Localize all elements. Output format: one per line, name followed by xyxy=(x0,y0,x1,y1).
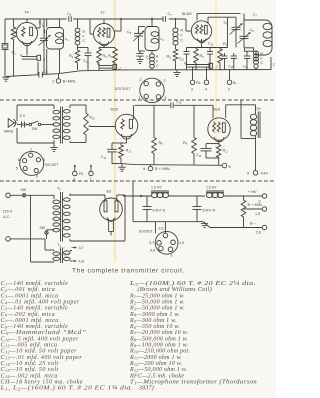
svg-text:8 M F D: 8 M F D xyxy=(153,209,166,213)
svg-text:C11—.005 mfd. mica: C11—.005 mfd. mica xyxy=(1,342,58,349)
svg-text:C1—140 mmfd. variable: C1—140 mmfd. variable xyxy=(1,280,69,287)
tube 6L6 modulator xyxy=(208,105,230,141)
wire 6L6G plate top xyxy=(197,13,241,20)
label T7 xyxy=(100,10,105,15)
label C far right xyxy=(273,63,276,67)
tank coil L1 xyxy=(47,28,64,50)
coupling box xyxy=(245,48,254,51)
svg-text:R11: R11 xyxy=(126,149,132,154)
label 6L6G xyxy=(182,11,192,16)
label C15 xyxy=(176,100,182,105)
svg-text:C5—140 mmfd. variable: C5—140 mmfd. variable xyxy=(1,305,69,312)
microphone xyxy=(8,119,17,128)
wire T4 plate xyxy=(35,19,40,28)
label R6 xyxy=(200,54,205,59)
label C9 xyxy=(224,21,229,26)
cathode bypass capacitor xyxy=(184,48,190,71)
svg-text:6: 6 xyxy=(229,164,232,169)
svg-text:6C5: 6C5 xyxy=(111,107,119,112)
wire 83 filament to HV rail xyxy=(123,195,151,197)
label T2 xyxy=(57,187,61,192)
svg-text:C9—Hammarlund “Mcd”: C9—Hammarlund “Mcd” xyxy=(1,329,87,336)
label 6L6 xyxy=(214,106,221,111)
transformer T3 primary xyxy=(53,250,60,262)
label R4 xyxy=(108,54,113,59)
svg-text:3 V: 3 V xyxy=(20,114,26,118)
svg-text:83: 83 xyxy=(107,189,112,194)
label 115V AC xyxy=(3,210,13,220)
T3 output 3,7 xyxy=(70,246,84,251)
svg-text:C: C xyxy=(83,39,86,43)
terminal +HV power xyxy=(262,194,267,199)
wire grid bus top xyxy=(5,18,67,20)
svg-text:3,7: 3,7 xyxy=(79,246,84,250)
terminal B- 2 xyxy=(227,70,232,85)
svg-text:SW: SW xyxy=(32,127,38,131)
label +HV power xyxy=(248,189,261,204)
ground left xyxy=(2,77,9,81)
power socket wire xyxy=(155,222,157,234)
svg-text:C: C xyxy=(261,61,264,65)
svg-text:8: 8 xyxy=(43,158,45,162)
filter capacitor 8MFD 1 xyxy=(143,196,152,222)
svg-text:C15: C15 xyxy=(229,64,235,69)
label power socket pins xyxy=(149,227,184,258)
svg-text:3: 3 xyxy=(191,88,193,92)
label MIKE xyxy=(4,130,14,134)
svg-text:R10—250,000 ohm pot.: R10—250,000 ohm pot. xyxy=(129,349,190,355)
terminal FIL 4 xyxy=(204,70,209,85)
svg-text:C15—10 mfd. 50 volt: C15—10 mfd. 50 volt xyxy=(1,366,59,373)
svg-text:2: 2 xyxy=(140,78,142,82)
svg-text:B–: B– xyxy=(233,81,239,85)
wire T1 sec top xyxy=(70,105,86,112)
resistor R7 xyxy=(218,48,223,71)
svg-text:F: F xyxy=(83,35,85,39)
power bottom rail xyxy=(133,222,262,228)
label Cb xyxy=(243,64,249,69)
wire 6L6 cathode xyxy=(218,140,220,143)
ground under T1 xyxy=(50,143,57,152)
jack J2 xyxy=(98,64,117,70)
capacitor C7 xyxy=(163,16,165,22)
speaker socket xyxy=(20,151,44,175)
svg-text:2,6: 2,6 xyxy=(256,231,261,235)
transformer T2 core xyxy=(61,192,63,242)
label 6.3V xyxy=(62,253,71,257)
svg-text:C2—.001 mfd. mica: C2—.001 mfd. mica xyxy=(1,286,56,293)
svg-text:F: F xyxy=(156,60,158,64)
label R12 xyxy=(223,149,229,154)
svg-text:T2: T2 xyxy=(57,187,61,192)
svg-text:+ HV: + HV xyxy=(248,189,257,194)
label R8 xyxy=(159,141,164,146)
transformer T1 primary xyxy=(53,105,60,143)
label socket pins xyxy=(139,78,167,100)
svg-text:C8—140 mmfd. variable: C8—140 mmfd. variable xyxy=(1,323,69,330)
svg-text:9: 9 xyxy=(36,175,38,179)
wire T2 sec top to plate xyxy=(70,195,144,202)
svg-text:R3: R3 xyxy=(103,54,108,59)
filter choke 1 (1.5 HY) xyxy=(151,191,169,198)
capacitor C3 xyxy=(69,16,71,22)
svg-text:SOCKET: SOCKET xyxy=(139,229,153,233)
svg-text:4: 4 xyxy=(205,88,207,92)
label C2 xyxy=(44,70,49,75)
svg-text:B + MIN.: B + MIN. xyxy=(155,166,171,171)
label L2b xyxy=(161,37,165,42)
label T1 xyxy=(57,99,61,104)
svg-text:R9: R9 xyxy=(183,141,188,146)
label 9 B+MIN xyxy=(143,166,171,171)
label 8MFD 2 xyxy=(203,209,216,213)
svg-text:1.5 HY: 1.5 HY xyxy=(206,186,217,190)
label FIL mid xyxy=(73,172,91,182)
filter capacitor 8MFD 2 xyxy=(193,196,202,222)
svg-text:2: 2 xyxy=(228,88,230,92)
switch SW line xyxy=(10,194,54,197)
wire between chokes xyxy=(169,195,205,197)
tube T7 buffer xyxy=(94,19,115,46)
svg-text:R2: R2 xyxy=(69,54,74,59)
label RFC3 xyxy=(261,52,264,65)
label 6 xyxy=(229,164,232,169)
resistor R2 xyxy=(75,49,80,70)
resistor R6 xyxy=(194,48,199,71)
svg-text:R6—350 ohm 10 w.: R6—350 ohm 10 w. xyxy=(129,324,180,330)
label 1 B+MIN xyxy=(52,79,76,84)
capacitor C13 xyxy=(201,144,220,159)
terminal FIL B xyxy=(89,165,94,176)
label CH xyxy=(255,107,261,111)
label L1 xyxy=(65,37,69,42)
label SW mic xyxy=(32,127,38,131)
svg-text:8 M F D: 8 M F D xyxy=(203,209,216,213)
svg-text:R9—100,000 ohm 1 w.: R9—100,000 ohm 1 w. xyxy=(129,343,188,349)
svg-text:5: 5 xyxy=(171,254,173,258)
svg-text:R4: R4 xyxy=(108,54,113,59)
terminal 115V line 1 xyxy=(6,193,11,198)
label RFC1 xyxy=(83,30,86,43)
capacitor C14 xyxy=(107,143,117,164)
svg-text:R10: R10 xyxy=(90,116,96,121)
wire T4 cathode to key xyxy=(26,44,28,56)
speech plate bus xyxy=(135,104,214,106)
svg-text:L1, L2—(160M.) 60 T. # 20 EC 1: L1, L2—(160M.) 60 T. # 20 EC 1¾ dia. xyxy=(0,385,134,392)
label C3 xyxy=(67,12,72,17)
wire plate bus top xyxy=(73,18,163,20)
svg-text:C: C xyxy=(273,63,276,67)
svg-text:7: 7 xyxy=(30,148,32,152)
svg-text:C4—.01 mfd. 400 volt paper: C4—.01 mfd. 400 volt paper xyxy=(1,298,80,305)
svg-text:C14: C14 xyxy=(101,155,107,160)
capacitor C15 xyxy=(171,103,173,109)
grid choke RFC4 xyxy=(173,18,178,48)
label C6 xyxy=(146,56,151,61)
svg-text:L2: L2 xyxy=(161,37,165,42)
svg-text:L3: L3 xyxy=(253,13,257,18)
antenna coil L3 xyxy=(244,20,272,55)
ground speech xyxy=(118,164,125,171)
plate choke RFC2 xyxy=(150,51,155,70)
tube T4 xyxy=(16,19,37,46)
svg-text:+HV: +HV xyxy=(260,171,268,176)
svg-text:The complete transmitter circu: The complete transmitter circuit. xyxy=(72,268,185,275)
svg-text:F: F xyxy=(181,34,183,38)
label C4 xyxy=(83,59,88,64)
antenna capacitor Cc xyxy=(222,53,228,70)
svg-text:R11—2000 ohm 1 w.: R11—2000 ohm 1 w. xyxy=(129,355,182,361)
wire 6L6 plate xyxy=(226,105,256,118)
modulation choke CH xyxy=(250,105,260,138)
svg-text:C6—.002 mfd. mica: C6—.002 mfd. mica xyxy=(1,311,56,318)
label SW2 xyxy=(40,226,46,230)
tank coil L2b xyxy=(139,27,160,52)
svg-text:SW: SW xyxy=(40,226,46,230)
svg-text:CH—18 henry 150 ma. choke: CH—18 henry 150 ma. choke xyxy=(1,379,83,385)
svg-text:1: 1 xyxy=(52,79,55,84)
svg-text:5: 5 xyxy=(247,171,250,176)
svg-text:(Brown and Williams Coil): (Brown and Williams Coil) xyxy=(130,286,212,293)
wire line 2 xyxy=(10,238,45,240)
svg-text:C: C xyxy=(156,64,159,68)
label 83 xyxy=(107,189,112,194)
key jack J1 xyxy=(21,55,41,75)
label C1 xyxy=(39,21,45,34)
wire choke to +HV xyxy=(255,139,257,171)
label J3 xyxy=(215,64,219,69)
svg-text:R12: R12 xyxy=(223,149,229,154)
terminal B- power xyxy=(262,225,267,230)
potentiometer R10 xyxy=(84,112,91,136)
T3 output 4,8 xyxy=(70,260,84,264)
label 3V xyxy=(20,114,26,118)
transformer T1 core xyxy=(61,107,63,144)
label C8 xyxy=(250,28,255,33)
svg-text:9: 9 xyxy=(143,166,146,171)
label Ca xyxy=(229,64,235,69)
terminal FIL A xyxy=(73,165,78,176)
label SOCKET top xyxy=(115,87,132,91)
svg-text:R1—25,000 ohm 1 w.: R1—25,000 ohm 1 w. xyxy=(129,293,185,299)
svg-text:B+MIN.: B+MIN. xyxy=(63,79,76,84)
label choke 2 xyxy=(206,186,217,190)
wire T2 sec bottom to plate xyxy=(70,195,125,241)
label R3 xyxy=(103,54,108,59)
section separator dashed line xyxy=(0,99,276,101)
svg-text:MIKE: MIKE xyxy=(4,130,14,134)
svg-text:RFC—2.5 mh. choke: RFC—2.5 mh. choke xyxy=(129,373,184,379)
label C10 xyxy=(208,42,214,47)
label C13 xyxy=(196,153,202,158)
speech bottom bus xyxy=(121,164,222,166)
bottom bus of RF section xyxy=(6,70,271,77)
terminal FIL 3 xyxy=(190,70,195,85)
terminal 6 xyxy=(222,163,227,168)
svg-text:R8—500,000 ohm 1 w.: R8—500,000 ohm 1 w. xyxy=(129,336,188,342)
tube 6C5 xyxy=(115,114,138,139)
svg-text:SW: SW xyxy=(21,188,27,192)
svg-text:T7: T7 xyxy=(100,10,105,15)
label J2 xyxy=(118,66,122,71)
svg-text:C: C xyxy=(181,39,184,43)
ground power xyxy=(201,222,208,228)
resistor R8 xyxy=(152,105,157,164)
svg-text:SOCKET: SOCKET xyxy=(115,87,132,91)
svg-text:L3—(160M.) 60 T. # 20 EC 2¼ di: L3—(160M.) 60 T. # 20 EC 2¼ dia. xyxy=(129,280,256,287)
svg-text:R7—20,000 ohm 10 w.: R7—20,000 ohm 10 w. xyxy=(129,330,188,336)
wire T3 feed xyxy=(31,195,55,262)
svg-text:C13—.01 mfd. 400 volt paper: C13—.01 mfd. 400 volt paper xyxy=(1,354,83,361)
svg-text:4,8: 4,8 xyxy=(79,260,84,264)
svg-text:T1—Microphone transformer (Tho: T1—Microphone transformer (Thordarson xyxy=(130,378,257,385)
resistor R4 xyxy=(113,48,118,71)
svg-text:R1: R1 xyxy=(12,51,17,56)
resistor R3 xyxy=(97,48,102,71)
filter choke 2 (1.5 HY) xyxy=(206,191,224,198)
crystal XTAL xyxy=(2,19,9,77)
ground mid xyxy=(173,70,180,77)
variable capacitor C9 xyxy=(230,17,243,47)
label R2 xyxy=(69,54,74,59)
svg-text:C1: C1 xyxy=(39,21,44,26)
svg-text:FIL: FIL xyxy=(196,81,201,85)
tube 6L6G xyxy=(191,21,211,43)
capacitor C6 to ground xyxy=(137,51,144,59)
wire 6L6G cathode xyxy=(187,39,228,48)
label T4 xyxy=(24,10,29,15)
wire 6C5 cathode xyxy=(112,137,127,143)
svg-text:F: F xyxy=(261,57,263,61)
wire T7 cathode xyxy=(99,45,115,48)
label SW line xyxy=(21,188,27,192)
label R1 xyxy=(12,51,17,56)
switch SW2 xyxy=(45,230,54,239)
antenna capacitor Ca xyxy=(231,53,237,70)
wire T7 grid xyxy=(90,19,93,34)
label FIL top xyxy=(191,81,207,92)
svg-text:1,9: 1,9 xyxy=(179,241,184,245)
label R9 xyxy=(183,141,188,146)
svg-text:6.3 V: 6.3 V xyxy=(62,253,71,257)
svg-text:C10: C10 xyxy=(208,42,214,47)
svg-text:3837): 3837) xyxy=(130,385,154,392)
svg-text:3: 3 xyxy=(164,79,166,83)
antenna choke RFC3 xyxy=(254,51,259,70)
svg-text:C11: C11 xyxy=(179,57,184,62)
83 filament leads xyxy=(109,219,114,236)
svg-text:A.C.: A.C. xyxy=(3,215,10,219)
bleeder tap B+MIN xyxy=(244,207,267,212)
transformer T2 secondary xyxy=(64,194,71,242)
svg-text:C16—.002 mfd. mica: C16—.002 mfd. mica xyxy=(1,372,58,379)
resistor R1 xyxy=(11,19,16,76)
wire T1 sec bottom xyxy=(70,136,86,143)
wire after C7 xyxy=(169,19,191,31)
grid choke RFC1 xyxy=(75,19,80,49)
label SOCKET mid xyxy=(45,163,59,167)
resistor R9 xyxy=(192,105,197,164)
wire B- riser xyxy=(132,182,134,222)
far right wire xyxy=(270,57,272,70)
svg-text:6L6G: 6L6G xyxy=(182,11,192,16)
variable capacitor C5 xyxy=(133,27,144,52)
ground under C6 xyxy=(136,60,143,64)
rectifier tube 83 xyxy=(100,198,123,221)
label L3 xyxy=(253,13,257,18)
resistor R12 xyxy=(217,144,221,166)
battery 3V xyxy=(17,122,29,128)
label B- 2 xyxy=(228,81,239,92)
svg-text:115 V: 115 V xyxy=(3,210,13,214)
label R11 xyxy=(126,149,132,154)
label C5 xyxy=(127,30,132,35)
wire T7 plate xyxy=(115,19,122,31)
svg-text:C3—.0001 mfd. mica: C3—.0001 mfd. mica xyxy=(1,292,59,299)
svg-text:6: 6 xyxy=(18,158,20,162)
wire to T3 primary top xyxy=(45,239,54,250)
terminal 1 B+MIN xyxy=(56,74,61,83)
svg-text:R12—200 ohm 10 w.: R12—200 ohm 10 w. xyxy=(129,361,182,367)
svg-text:2,6: 2,6 xyxy=(159,227,164,231)
label RFC2 xyxy=(156,55,159,68)
svg-text:C3: C3 xyxy=(67,12,72,17)
label speaker socket pins xyxy=(16,148,45,179)
svg-text:R: R xyxy=(181,29,184,33)
wire T4 grid xyxy=(14,32,17,34)
wire tank verticals xyxy=(47,19,60,74)
screen bypass capacitor C10 xyxy=(207,48,213,71)
resistor R11 xyxy=(112,143,123,164)
wire junction down to tank 2 xyxy=(151,19,153,27)
svg-text:1,9: 1,9 xyxy=(255,212,260,216)
svg-text:C4: C4 xyxy=(83,59,88,64)
resistor R5 xyxy=(173,48,178,70)
section separator dashed line 2 xyxy=(0,180,276,182)
svg-text:R2—50,000 ohm 1 w.: R2—50,000 ohm 1 w. xyxy=(129,299,185,305)
svg-text:R13—50,000 ohm 1 w.: R13—50,000 ohm 1 w. xyxy=(129,367,187,373)
terminal 9 B+MIN xyxy=(148,165,153,171)
label R7 xyxy=(223,42,228,47)
svg-text:B + MIN: B + MIN xyxy=(248,202,262,207)
terminal 115V line 2 xyxy=(6,237,11,242)
bleeder resistor xyxy=(241,196,246,228)
wire 6C5 plate xyxy=(133,105,135,119)
svg-text:C12—10 mfd. 50 volt paper: C12—10 mfd. 50 volt paper xyxy=(1,348,77,355)
svg-text:L1: L1 xyxy=(65,37,69,42)
label B- power xyxy=(250,221,261,235)
power socket wire 2 xyxy=(164,222,166,233)
capacitor C2 xyxy=(39,72,42,78)
transformer T3 secondary xyxy=(64,251,71,261)
svg-text:FIL: FIL xyxy=(79,172,84,176)
svg-text:C13: C13 xyxy=(196,153,202,158)
svg-text:T4: T4 xyxy=(24,10,29,15)
transformer T1 secondary xyxy=(64,105,71,143)
svg-text:R5: R5 xyxy=(167,55,172,60)
svg-text:T3: T3 xyxy=(57,243,61,248)
svg-text:J: J xyxy=(215,64,219,69)
svg-text:1.5 HY: 1.5 HY xyxy=(151,186,162,190)
mic circuit loop xyxy=(17,105,54,143)
label choke 1 xyxy=(151,186,162,190)
svg-text:CH: CH xyxy=(255,107,261,111)
label J1 xyxy=(42,57,46,62)
svg-text:B –: B – xyxy=(250,221,257,226)
label R5 xyxy=(167,55,172,60)
svg-text:C5: C5 xyxy=(127,30,132,35)
svg-text:R7: R7 xyxy=(223,42,228,47)
